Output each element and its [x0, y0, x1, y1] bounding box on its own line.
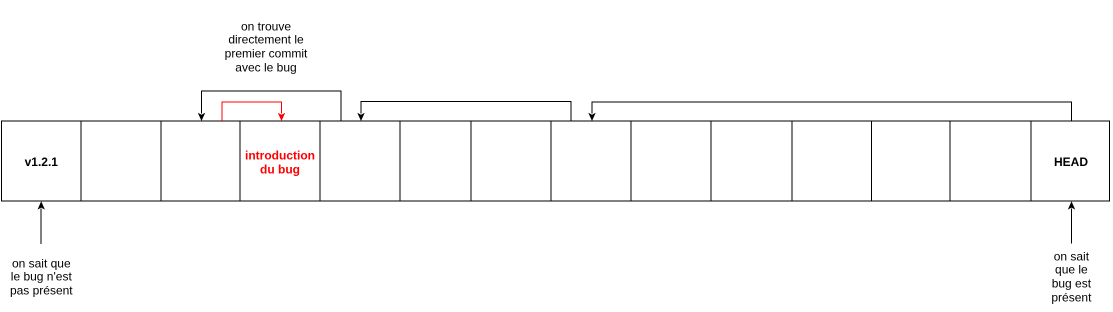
- red elbow arrow: from box 3 top to box 4 top (introduction du bug): [222, 102, 285, 121]
- commit box 14 (HEAD): [1031, 121, 1110, 201]
- note: on sait que le bug n'est pas present: [10, 257, 73, 298]
- elbow arrow C: from box 14 (HEAD) top to box 8 top: [588, 102, 1071, 121]
- commit box 8: [551, 121, 631, 201]
- label HEAD in commit box 14: [1054, 156, 1088, 170]
- up arrow from right note to box 14 bottom: [1068, 201, 1075, 243]
- commit box 12: [872, 121, 951, 201]
- commit box 9: [631, 121, 711, 201]
- elbow arrow A: from box 5 top to box 3 top: [198, 91, 341, 121]
- commit box 6: [400, 121, 471, 201]
- commit box 7: [471, 121, 551, 201]
- commit box 10: [711, 121, 792, 201]
- commit box 13: [950, 121, 1031, 201]
- commit box 3: [161, 121, 240, 201]
- commit box 1 (v1.2.1): [2, 121, 82, 201]
- label introduction du bug in commit box 4: [245, 149, 315, 176]
- commit box 4 (introduction du bug): [240, 121, 320, 201]
- note: on trouve directement le premier commit avec le bug: [225, 20, 308, 75]
- commit box 11: [792, 121, 872, 201]
- commit box 5: [320, 121, 400, 201]
- up arrow from left note to box 1 bottom: [38, 201, 45, 244]
- elbow arrow B: from box 8 top to box 5 top: [357, 102, 571, 122]
- note: on sait que le bug est present: [1051, 250, 1091, 305]
- label v1.2.1 in commit box 1: [25, 156, 58, 170]
- commit box 2: [81, 121, 161, 201]
